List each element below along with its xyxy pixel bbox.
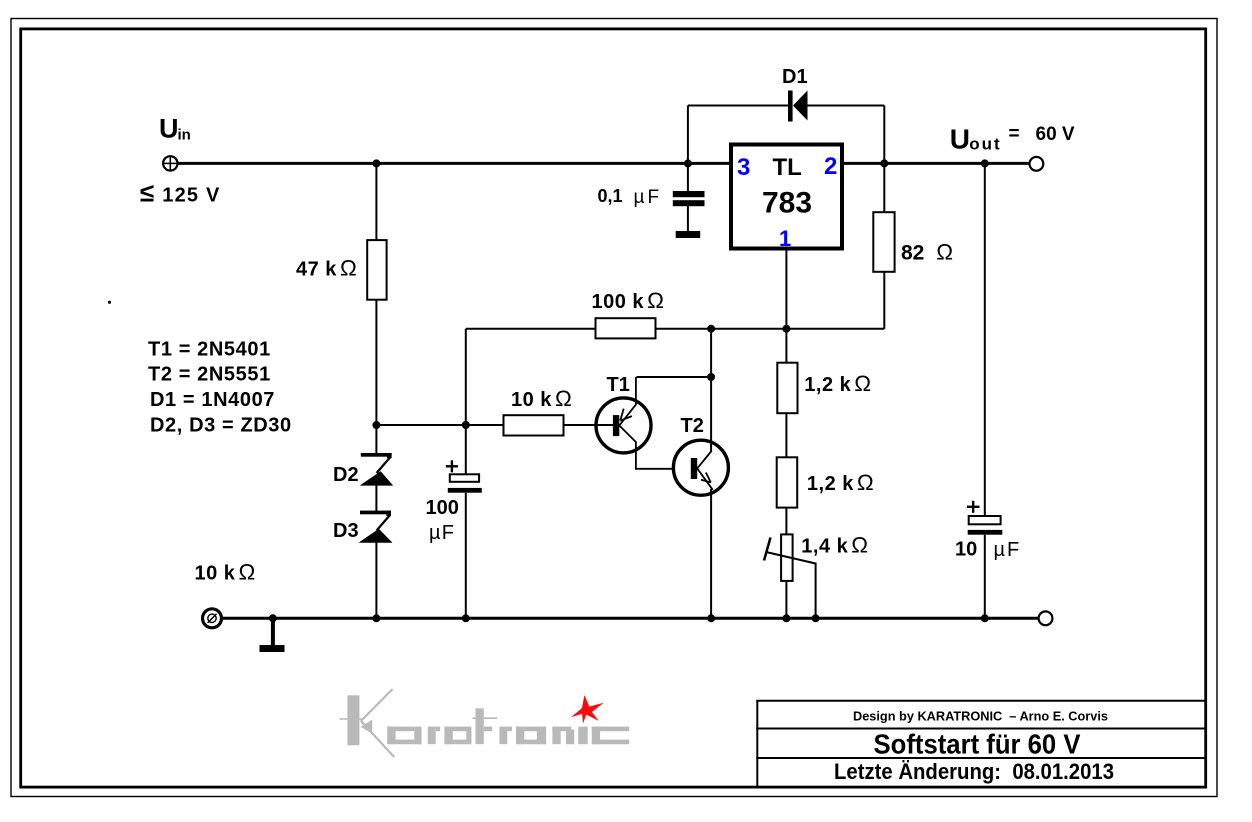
svg-text:1,4 kΩ: 1,4 kΩ xyxy=(801,533,868,558)
svg-text:Design by KARATRONIC – Arno E: Design by KARATRONIC – Arno E. Corvis xyxy=(853,709,1108,724)
svg-text:=: = xyxy=(1009,124,1020,145)
svg-text:µF: µF xyxy=(994,539,1022,561)
svg-text:2: 2 xyxy=(824,153,837,180)
svg-text:U: U xyxy=(950,123,970,154)
svg-text:D2: D2 xyxy=(333,464,359,486)
svg-text:T2: T2 xyxy=(681,415,704,437)
svg-text:D1 = 1N4007: D1 = 1N4007 xyxy=(150,389,275,411)
svg-text:Letzte Änderung: 08.01.2013: Letzte Änderung: 08.01.2013 xyxy=(834,759,1114,784)
svg-text:Softstart für 60 V: Softstart für 60 V xyxy=(874,728,1081,759)
svg-text:1,2 kΩ: 1,2 kΩ xyxy=(807,470,874,495)
svg-text:µF: µF xyxy=(429,522,455,544)
svg-text:3: 3 xyxy=(737,154,750,181)
svg-text:60 V: 60 V xyxy=(1036,124,1075,145)
svg-text:100 kΩ: 100 kΩ xyxy=(592,288,665,313)
svg-text:783: 783 xyxy=(762,187,812,220)
svg-text:D1: D1 xyxy=(782,66,808,88)
svg-text:10 kΩ: 10 kΩ xyxy=(195,560,256,585)
svg-text:µF: µF xyxy=(634,187,663,208)
svg-text:10: 10 xyxy=(955,539,977,561)
svg-text:10 kΩ: 10 kΩ xyxy=(511,386,572,411)
svg-text:82 Ω: 82 Ω xyxy=(901,240,953,265)
svg-text:0,1: 0,1 xyxy=(598,186,623,206)
svg-text:T1: T1 xyxy=(607,374,630,396)
svg-text:1,2 kΩ: 1,2 kΩ xyxy=(804,371,871,396)
svg-text:D3: D3 xyxy=(333,520,359,542)
svg-text:in: in xyxy=(178,127,191,144)
svg-text:47 kΩ: 47 kΩ xyxy=(296,256,357,281)
svg-text:out: out xyxy=(969,135,1001,154)
svg-text:1: 1 xyxy=(779,226,791,251)
svg-text:D2, D3 = ZD30: D2, D3 = ZD30 xyxy=(150,415,292,437)
svg-text:U: U xyxy=(159,114,179,144)
svg-text:TL: TL xyxy=(773,154,802,181)
svg-text:100: 100 xyxy=(426,497,459,519)
svg-text:T1 = 2N5401: T1 = 2N5401 xyxy=(148,339,271,361)
svg-text:T2 = 2N5551: T2 = 2N5551 xyxy=(148,364,271,386)
